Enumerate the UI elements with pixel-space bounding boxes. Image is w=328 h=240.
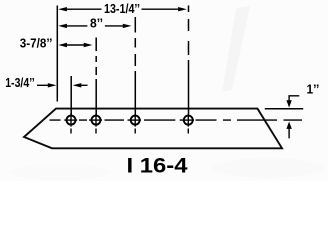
dimension 1 inch up arrow shaft (288, 128, 290, 138)
blade outline (24, 109, 282, 149)
svg-text:13-1/4’’: 13-1/4’’ (104, 1, 140, 16)
dimension 8 right shaft (105, 25, 124, 27)
dimension 8 left shaft (66, 25, 87, 27)
dimension 1-3/4 right arrow shaft (80, 84, 88, 86)
dimension 13-1/4 right arrowhead (178, 7, 187, 11)
dimension 1 inch down arrowhead (286, 100, 291, 107)
scan smudge bottom left (10, 164, 110, 180)
dimension 1-3/4 left arrow shaft (37, 84, 49, 86)
dimension 1-3/4 left arrowhead (48, 83, 57, 87)
dimension 8 right arrowhead (123, 24, 132, 28)
dimension 8 left arrowhead (58, 24, 67, 28)
extension line hole 4 (188, 6, 190, 116)
hole 2 (91, 114, 101, 134)
dimension 1 inch up arrowhead (286, 122, 291, 129)
dimension 13-1/4 left shaft (66, 8, 102, 10)
dimension 3-7/8 right arrowhead (84, 43, 93, 47)
center line through holes (50, 119, 303, 121)
top edge extension line right (265, 108, 303, 110)
dimension 13-1/4 left arrowhead (58, 7, 67, 11)
scan smudge bottom right (213, 158, 323, 178)
dimension 13-1/4 right shaft (142, 8, 180, 10)
svg-text:I 16-4: I 16-4 (127, 155, 188, 178)
svg-text:8’’: 8’’ (90, 16, 103, 30)
extension line hole 1 (70, 76, 72, 115)
extension line hole 2 (95, 38, 97, 116)
dimension 3-7/8 shaft (66, 44, 85, 46)
svg-text:1-3/4’’: 1-3/4’’ (5, 75, 35, 90)
hole 1 (66, 114, 76, 134)
svg-text:1’’: 1’’ (307, 83, 320, 97)
svg-text:3-7/8’’: 3-7/8’’ (20, 36, 53, 51)
hole 3 (130, 114, 140, 134)
dimension 3-7/8 left arrowhead (58, 43, 67, 47)
extension line hole 3 (134, 17, 136, 115)
dimension 1-3/4 right arrowhead (73, 83, 82, 87)
hole 4 (183, 114, 193, 134)
extension line left reference (56, 6, 58, 102)
dimension 1 inch leader elbow (289, 96, 299, 101)
scan streak upper right (222, 6, 250, 92)
